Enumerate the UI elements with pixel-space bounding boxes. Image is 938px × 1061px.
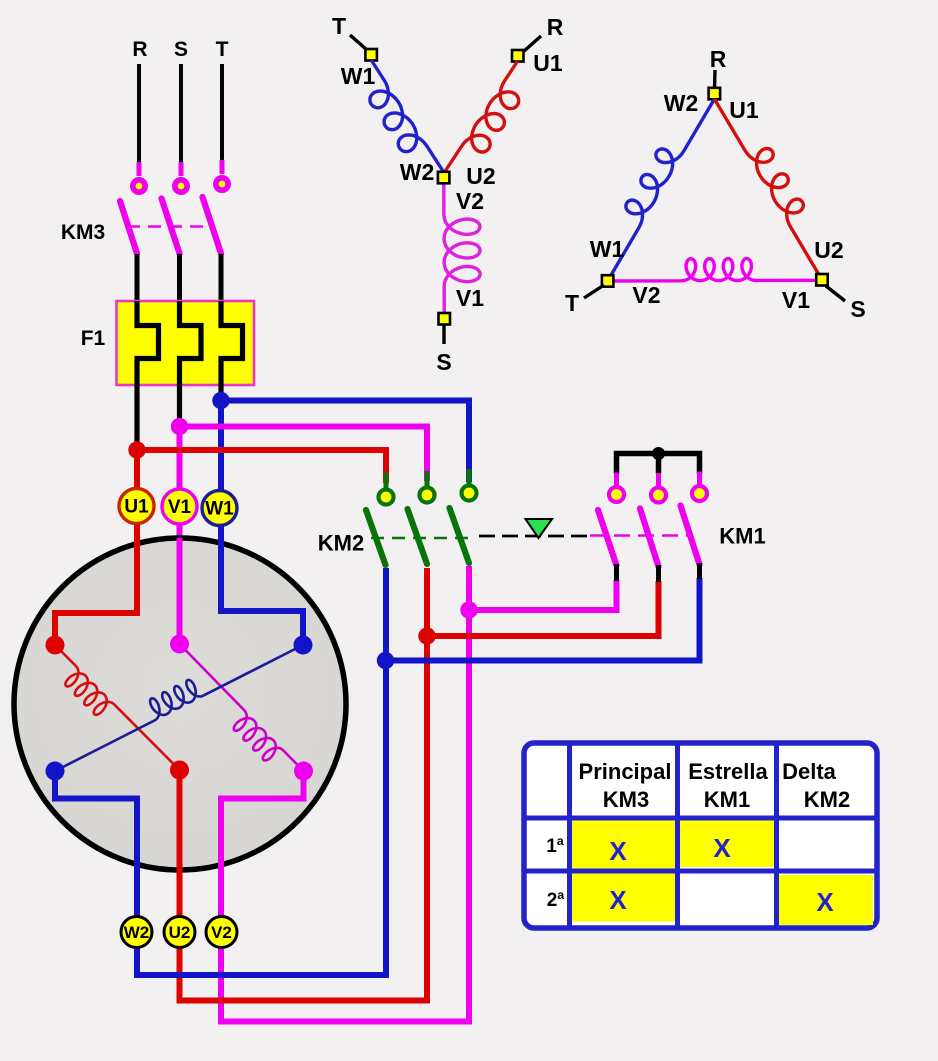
wire V1 magenta to motor	[177, 427, 183, 645]
node junction red right	[418, 627, 435, 644]
contactor KM2 terminal 1	[384, 473, 389, 488]
contactor KM1 blade 3	[681, 506, 700, 565]
svg-text:KM2: KM2	[318, 531, 364, 556]
wire supply T	[220, 64, 224, 164]
svg-text:T: T	[216, 38, 229, 61]
wire W1 branch blue horizontal	[221, 401, 469, 483]
wire KM1 pole 2 stub	[656, 565, 661, 582]
star winding U red coil	[445, 61, 519, 172]
star terminal V1	[439, 313, 451, 325]
wire KM1 pole 1 stub	[614, 564, 619, 581]
mechanical linkage dashed black	[479, 535, 594, 538]
svg-text:W1: W1	[590, 236, 625, 262]
overload relay F1 box	[117, 301, 255, 385]
motor terminal V2 node	[294, 762, 313, 781]
svg-text:T: T	[565, 290, 579, 316]
motor terminal W2 node	[46, 762, 65, 781]
contactor KM2 blade 1	[366, 510, 386, 565]
wire V1 branch magenta horizontal	[180, 427, 428, 482]
node junction red	[128, 441, 145, 458]
wire KM1 to red node	[427, 581, 659, 636]
svg-text:U1: U1	[124, 497, 149, 518]
svg-text:KM1: KM1	[719, 524, 765, 549]
wire U1 red to motor	[55, 450, 137, 645]
interlock triangle	[526, 519, 553, 538]
wire KM3 to F1 phase 3	[219, 254, 224, 303]
svg-text:1ª: 1ª	[546, 836, 565, 857]
motor winding V magenta coil	[180, 644, 304, 771]
terminal W2	[121, 917, 152, 948]
svg-text:V1: V1	[168, 497, 192, 518]
star terminal W1	[365, 49, 377, 61]
overload relay F1 element 3	[221, 301, 243, 401]
svg-text:W1: W1	[341, 63, 376, 89]
contactor KM2 blade 3	[450, 508, 470, 563]
table yellow cell row1 Principal	[572, 821, 675, 869]
contactor KM1 terminal 3	[697, 472, 702, 485]
contactor KM3 blade 1	[120, 201, 137, 254]
node junction blue right	[377, 652, 394, 669]
table grid lines	[524, 743, 877, 928]
wire supply R	[137, 64, 141, 166]
svg-text:V2: V2	[456, 188, 484, 214]
contactor KM1 blade 1	[598, 510, 617, 566]
svg-text:S: S	[174, 38, 188, 61]
svg-text:Principal: Principal	[579, 759, 672, 784]
svg-text:R: R	[547, 14, 564, 40]
svg-text:X: X	[713, 833, 731, 863]
delta wire T lead	[584, 285, 604, 298]
wire KM1 to blue node	[386, 578, 700, 661]
terminal S	[179, 162, 184, 176]
contactor KM1 supply bar	[617, 454, 700, 475]
node junction magenta right	[460, 601, 477, 618]
svg-text:V2: V2	[211, 923, 232, 942]
svg-text:KM3: KM3	[603, 787, 649, 812]
svg-text:2ª: 2ª	[547, 890, 566, 911]
svg-text:U2: U2	[814, 237, 843, 263]
motor terminal V1 node	[170, 635, 189, 654]
delta winding V magenta coil	[608, 259, 822, 282]
motor terminal U2 node	[170, 761, 189, 780]
svg-text:W2: W2	[124, 923, 150, 942]
svg-text:W2: W2	[664, 90, 699, 116]
svg-text:U2: U2	[169, 923, 191, 942]
svg-text:KM2: KM2	[804, 787, 850, 812]
svg-text:R: R	[132, 38, 147, 61]
terminal R	[137, 162, 142, 176]
contactor KM3 blade 3	[203, 197, 222, 254]
delta terminal W1	[602, 275, 614, 287]
delta winding W blue coil	[608, 99, 715, 281]
motor winding U red coil	[55, 645, 180, 770]
table yellow cell row1 Estrella	[680, 819, 774, 867]
delta wire S lead	[826, 286, 845, 301]
wire W1 blue inside motor	[221, 538, 303, 645]
svg-text:X: X	[816, 887, 834, 917]
wire KM1 pole 3 stub	[697, 563, 702, 579]
delta terminal R	[709, 88, 721, 100]
wire W2 blue return	[55, 568, 386, 975]
svg-text:Delta: Delta	[782, 759, 837, 784]
svg-text:S: S	[850, 296, 865, 322]
svg-text:V1: V1	[456, 285, 484, 311]
star neutral terminal	[438, 172, 450, 184]
star winding W blue coil	[370, 60, 444, 172]
svg-text:U2: U2	[466, 163, 495, 189]
wire V1 magenta inside motor	[177, 538, 183, 644]
svg-text:X: X	[609, 885, 627, 915]
wire KM3 to F1 phase 2	[177, 254, 182, 303]
svg-text:U1: U1	[729, 97, 759, 123]
svg-text:U1: U1	[533, 50, 563, 76]
star wire R lead	[523, 36, 541, 52]
contactor KM1 terminal 1	[614, 473, 619, 486]
terminal T	[220, 160, 225, 174]
motor winding W navy coil	[55, 645, 303, 771]
star winding V magenta coil	[444, 183, 480, 313]
node junction magenta	[171, 418, 188, 435]
contactor KM1 linkage dashed	[590, 534, 688, 537]
wire KM3 to F1 phase 1	[135, 254, 140, 303]
star wire S lead	[442, 325, 445, 344]
contactor KM2 terminal 2	[425, 471, 430, 486]
terminal V2	[206, 917, 237, 948]
svg-text:Estrella: Estrella	[688, 759, 768, 784]
contactor KM3 linkage dashed	[127, 225, 210, 228]
contactor KM2 terminal 3	[467, 469, 472, 484]
wire U1 red inside motor	[55, 538, 137, 645]
overload relay F1 element 2	[180, 301, 202, 427]
wire KM1 to magenta node	[469, 580, 617, 610]
delta wire R lead	[713, 70, 717, 89]
contactor KM2 linkage dashed	[371, 537, 473, 539]
svg-text:W1: W1	[205, 499, 234, 520]
delta terminal U2	[816, 274, 828, 286]
svg-text:F1: F1	[81, 327, 106, 350]
terminal U2	[164, 917, 195, 948]
svg-text:T: T	[332, 13, 346, 39]
delta winding U red coil	[714, 99, 822, 280]
svg-text:KM3: KM3	[61, 221, 105, 244]
svg-text:V2: V2	[632, 282, 660, 308]
motor terminal U1 node	[46, 636, 65, 655]
table frame	[524, 743, 877, 928]
wire U2 red return	[180, 568, 428, 1001]
motor stator circle	[14, 538, 346, 870]
svg-text:S: S	[436, 349, 451, 375]
wire W1 blue to motor	[221, 401, 303, 646]
contactor KM2 blade 2	[408, 509, 428, 564]
terminal U1	[119, 489, 154, 524]
svg-text:W2: W2	[400, 159, 435, 185]
svg-text:X: X	[609, 836, 627, 866]
svg-text:KM1: KM1	[704, 787, 750, 812]
table yellow cell row2 Principal	[572, 874, 675, 922]
overload relay F1 element 1	[137, 301, 159, 450]
contactor KM1 blade 2	[640, 509, 659, 567]
table yellow cell row2 Delta	[779, 875, 873, 925]
star wire T lead	[350, 35, 367, 50]
node KM1 bar junction	[652, 447, 665, 460]
contactor KM1 terminal 2	[656, 473, 661, 486]
node junction blue	[212, 392, 229, 409]
motor terminal W1 node	[294, 636, 313, 655]
svg-text:R: R	[710, 46, 727, 72]
terminal V1	[162, 489, 197, 524]
svg-text:V1: V1	[782, 287, 810, 313]
wire U1 branch red horizontal	[137, 450, 386, 483]
terminal W1	[202, 491, 237, 526]
contactor KM3 blade 2	[162, 199, 180, 254]
wire V2 magenta return	[221, 566, 469, 1022]
wire supply S	[179, 64, 183, 166]
star terminal U1	[512, 50, 524, 62]
